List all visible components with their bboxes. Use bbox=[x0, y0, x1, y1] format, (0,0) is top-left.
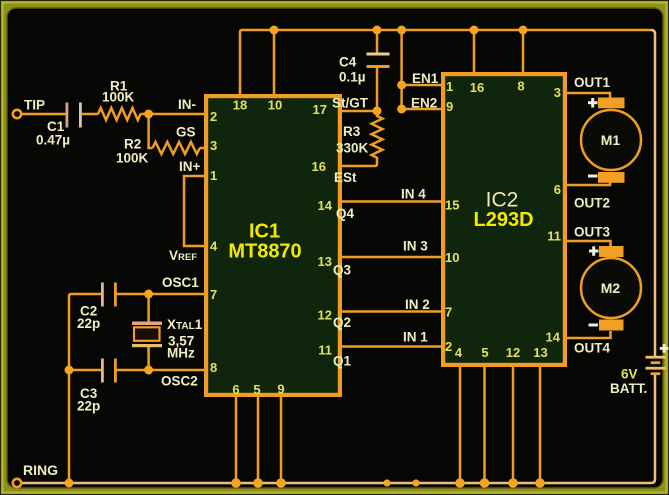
svg-text:TIP: TIP bbox=[24, 98, 45, 113]
svg-text:OSC2: OSC2 bbox=[161, 374, 198, 389]
svg-text:6: 6 bbox=[554, 182, 561, 197]
svg-text:1: 1 bbox=[446, 79, 453, 94]
svg-text:OUT3: OUT3 bbox=[574, 225, 610, 240]
svg-text:16: 16 bbox=[470, 80, 484, 95]
svg-text:L293D: L293D bbox=[473, 209, 533, 231]
svg-text:3: 3 bbox=[210, 138, 217, 153]
svg-text:BATT.: BATT. bbox=[610, 381, 647, 396]
svg-text:12: 12 bbox=[318, 308, 332, 323]
svg-text:18: 18 bbox=[233, 98, 247, 113]
svg-text:C4: C4 bbox=[339, 55, 357, 70]
svg-text:6: 6 bbox=[232, 382, 239, 397]
svg-text:11: 11 bbox=[318, 343, 332, 358]
svg-text:OUT4: OUT4 bbox=[574, 341, 610, 356]
svg-text:8: 8 bbox=[210, 360, 217, 375]
svg-text:IN 2: IN 2 bbox=[405, 297, 430, 312]
svg-text:Q4: Q4 bbox=[336, 206, 355, 221]
svg-text:100K: 100K bbox=[102, 90, 135, 105]
svg-text:10: 10 bbox=[445, 250, 459, 265]
svg-text:2: 2 bbox=[210, 109, 217, 124]
svg-text:Q1: Q1 bbox=[333, 354, 352, 369]
svg-text:OUT1: OUT1 bbox=[574, 75, 610, 90]
svg-text:13: 13 bbox=[533, 345, 547, 360]
svg-text:14: 14 bbox=[318, 198, 333, 213]
svg-text:IN 4: IN 4 bbox=[401, 187, 426, 202]
svg-text:11: 11 bbox=[547, 229, 561, 244]
svg-text:M1: M1 bbox=[601, 132, 621, 148]
svg-text:12: 12 bbox=[506, 345, 520, 360]
svg-text:OSC1: OSC1 bbox=[162, 275, 199, 290]
svg-text:EN1: EN1 bbox=[412, 71, 439, 86]
svg-text:0.47µ: 0.47µ bbox=[36, 133, 70, 148]
svg-text:3: 3 bbox=[554, 85, 561, 100]
svg-text:R3: R3 bbox=[343, 124, 361, 139]
svg-text:St/GT: St/GT bbox=[332, 96, 369, 111]
svg-text:7: 7 bbox=[445, 305, 452, 320]
svg-text:IN-: IN- bbox=[178, 97, 196, 112]
svg-text:5: 5 bbox=[253, 382, 260, 397]
svg-text:100K: 100K bbox=[116, 151, 149, 166]
svg-text:MT8870: MT8870 bbox=[228, 241, 301, 263]
svg-text:IC1: IC1 bbox=[249, 221, 280, 243]
svg-text:8: 8 bbox=[517, 79, 524, 94]
svg-text:22p: 22p bbox=[77, 316, 100, 331]
svg-text:5: 5 bbox=[481, 345, 488, 360]
svg-text:MHz: MHz bbox=[167, 346, 195, 361]
svg-text:ESt: ESt bbox=[334, 170, 357, 185]
svg-text:7: 7 bbox=[210, 287, 217, 302]
svg-text:IN 1: IN 1 bbox=[403, 330, 428, 345]
svg-text:10: 10 bbox=[268, 98, 282, 113]
svg-text:EN2: EN2 bbox=[411, 96, 437, 111]
svg-text:2: 2 bbox=[445, 339, 452, 354]
svg-text:R2: R2 bbox=[124, 137, 141, 152]
svg-text:M2: M2 bbox=[601, 280, 621, 296]
svg-text:4: 4 bbox=[210, 239, 218, 254]
svg-text:14: 14 bbox=[546, 330, 561, 345]
svg-text:15: 15 bbox=[445, 198, 459, 213]
svg-text:Q2: Q2 bbox=[333, 315, 351, 330]
svg-text:GS: GS bbox=[176, 125, 196, 140]
svg-text:330K: 330K bbox=[336, 141, 369, 156]
svg-text:Q3: Q3 bbox=[333, 263, 352, 278]
svg-text:17: 17 bbox=[313, 102, 327, 117]
svg-text:IN+: IN+ bbox=[179, 159, 201, 174]
svg-text:22p: 22p bbox=[77, 399, 100, 414]
svg-text:6V: 6V bbox=[621, 367, 638, 382]
svg-text:4: 4 bbox=[455, 345, 463, 360]
svg-text:RING: RING bbox=[23, 462, 58, 478]
svg-text:0.1µ: 0.1µ bbox=[339, 70, 366, 85]
svg-text:9: 9 bbox=[446, 99, 453, 114]
svg-text:9: 9 bbox=[277, 382, 284, 397]
svg-text:13: 13 bbox=[318, 254, 332, 269]
svg-text:IN 3: IN 3 bbox=[403, 239, 428, 254]
svg-text:16: 16 bbox=[312, 159, 326, 174]
svg-text:1: 1 bbox=[210, 168, 217, 183]
svg-text:OUT2: OUT2 bbox=[574, 196, 610, 211]
